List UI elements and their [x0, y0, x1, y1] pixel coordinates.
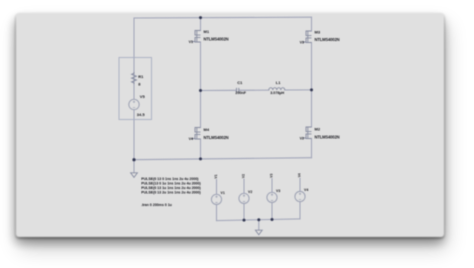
wire source stub V1 — [216, 180, 218, 221]
wire left leg midpoint — [200, 42, 202, 128]
ground sources rail — [255, 230, 262, 235]
svg-text:V5: V5 — [140, 94, 146, 99]
transistor M3 — [303, 31, 312, 43]
resistor R1 — [132, 72, 137, 84]
svg-text:R1: R1 — [138, 74, 144, 79]
schematic canvas card — [16, 13, 444, 238]
svg-text:M2: M2 — [315, 127, 321, 132]
wire source stub V2 — [243, 179, 245, 220]
svg-text:V2: V2 — [300, 137, 304, 141]
svg-text:3.078µH: 3.078µH — [270, 91, 284, 95]
wire center ground stub — [258, 220, 260, 230]
svg-text:8: 8 — [138, 81, 141, 86]
svg-text:NTLMS4002N: NTLMS4002N — [204, 135, 229, 140]
node sources rail / ground junction — [257, 218, 260, 221]
svg-text:V4: V4 — [304, 188, 308, 192]
voltage source V2 — [239, 193, 249, 203]
inductor L1 — [269, 88, 285, 90]
svg-text:L1: L1 — [276, 80, 281, 85]
svg-text:V1: V1 — [189, 40, 193, 44]
svg-text:NTLMS4002N: NTLMS4002N — [315, 37, 340, 42]
voltage source V3 — [267, 192, 277, 202]
svg-text:PULSE(0 13 0 1ns 1ns 2u 4u 200: PULSE(0 13 0 1ns 1ns 2u 4u 2000) — [141, 177, 199, 181]
svg-text:PULSE(0 13 2u 1ns 1ns 2u 4u 20: PULSE(0 13 2u 1ns 1ns 2u 4u 2000) — [141, 191, 201, 195]
svg-text:PULSE(13 0 1u 1ns 1ns 2u 4u 20: PULSE(13 0 1u 1ns 1ns 2u 4u 2000) — [141, 182, 201, 186]
wire battery ground stub — [133, 160, 135, 173]
node mid rail / left leg junction — [199, 89, 202, 92]
wire battery branch vertical — [133, 18, 135, 160]
ground battery branch — [131, 173, 138, 178]
wire source stub V4 — [299, 178, 301, 219]
node bottom rail / battery junction — [132, 158, 135, 161]
wire C1 to L1 — [239, 89, 269, 91]
wire left leg drain M1 — [200, 18, 202, 31]
capacitor C1 — [237, 88, 239, 93]
wire right leg source M2 — [311, 139, 313, 158]
node mid rail / right leg junction — [310, 88, 313, 91]
wire mid rail to C1 — [201, 89, 237, 91]
svg-text:V3: V3 — [300, 40, 304, 44]
wire left leg source M4 — [200, 139, 202, 159]
transistor M1 — [192, 31, 201, 43]
node sources rail / V3 junction — [271, 218, 274, 221]
wire right leg midpoint — [311, 43, 313, 128]
svg-text:V4: V4 — [189, 137, 193, 141]
wire bottom rail — [134, 158, 312, 160]
svg-text:NTLMS4002N: NTLMS4002N — [315, 134, 340, 139]
node top rail / left leg junction — [199, 16, 202, 19]
svg-text:NTLMS4002N: NTLMS4002N — [204, 37, 229, 42]
selection box around R1 and V5 — [119, 58, 152, 120]
svg-text:V4: V4 — [297, 173, 301, 177]
wire top rail — [134, 16, 312, 19]
svg-text:V2: V2 — [241, 174, 245, 178]
voltage source V1 — [211, 194, 221, 204]
svg-text:V1: V1 — [214, 174, 218, 178]
svg-text:200nF: 200nF — [235, 91, 246, 95]
svg-text:V3: V3 — [269, 174, 273, 178]
wire L1 to right leg — [285, 89, 312, 91]
svg-text:PULSE(0 13 1u 1ns 1ns 2u 4u 20: PULSE(0 13 1u 1ns 1ns 2u 4u 2000) — [141, 186, 201, 190]
node sources rail / V2 junction — [243, 219, 246, 222]
svg-text:.tran 0 200ms 0 1u: .tran 0 200ms 0 1u — [141, 203, 172, 207]
node bottom rail / left leg junction — [199, 157, 202, 160]
wire right leg drain M3 — [311, 17, 313, 31]
svg-text:C1: C1 — [237, 80, 243, 85]
transistor M4 — [192, 128, 201, 140]
voltage source V4 — [295, 191, 305, 201]
wire source stub V3 — [271, 179, 273, 220]
transistor M2 — [303, 127, 312, 139]
svg-text:V2: V2 — [248, 190, 252, 194]
svg-text:M3: M3 — [315, 29, 321, 34]
svg-text:34.5: 34.5 — [137, 112, 146, 117]
svg-text:V1: V1 — [221, 191, 225, 195]
svg-text:M1: M1 — [204, 29, 210, 34]
wire sources bottom rail — [217, 219, 301, 221]
svg-text:V3: V3 — [276, 189, 280, 193]
svg-text:M4: M4 — [204, 127, 210, 132]
voltage source V5 — [129, 99, 139, 109]
